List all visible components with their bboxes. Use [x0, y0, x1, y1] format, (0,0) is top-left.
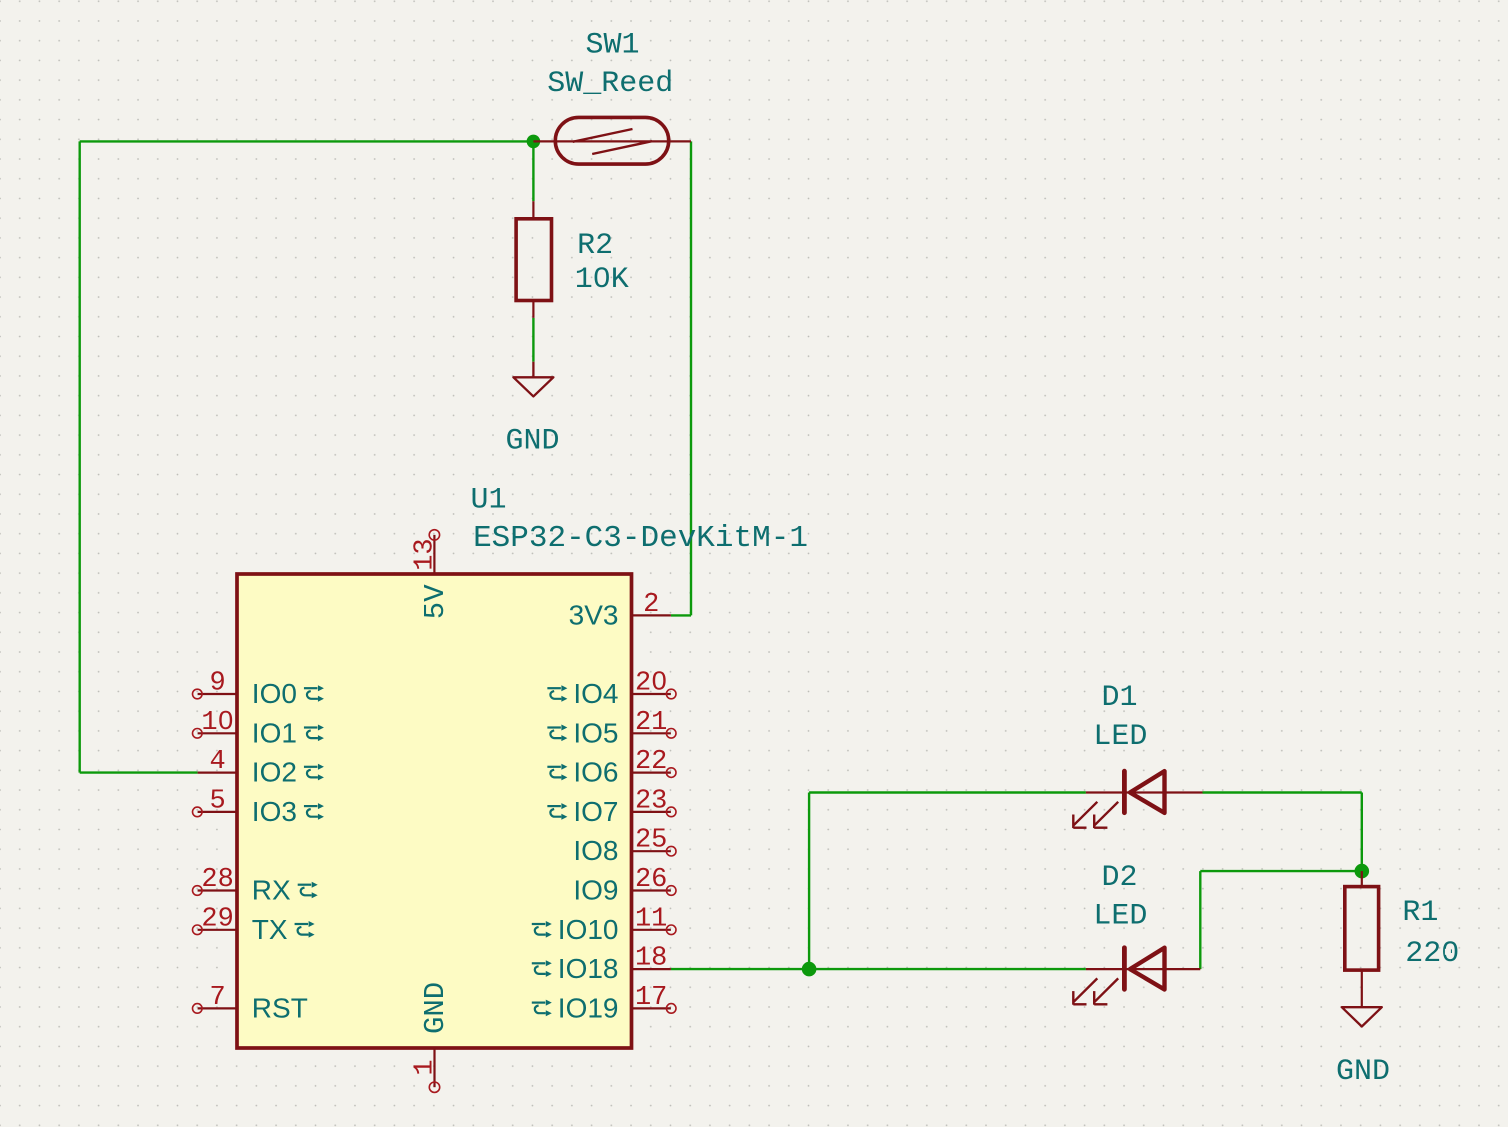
svg-text:IO5: IO5: [573, 717, 618, 748]
svg-text:IO4: IO4: [573, 678, 618, 709]
resistor R1 body: [1345, 887, 1379, 971]
pin 18 IO18 (right): [532, 944, 671, 985]
wire horizontal D2 to R1 junction: [1200, 870, 1362, 872]
svg-text:5: 5: [209, 786, 225, 816]
svg-text:220: 220: [1405, 937, 1459, 971]
(zero glyph patch over label 220): [1445, 949, 1451, 955]
svg-text:7: 7: [209, 983, 225, 1013]
pin 29 TX (left): [193, 904, 315, 945]
pin 5 IO3 (left): [193, 786, 324, 827]
pin 1 GND (bottom): [411, 982, 453, 1093]
SW1 pin 1 left: [533, 140, 612, 142]
SW1 pin 2 right: [612, 140, 691, 142]
svg-text:17: 17: [635, 983, 667, 1013]
svg-text:R1: R1: [1402, 896, 1438, 930]
pin 26 IO9 (right): [573, 865, 676, 906]
pin 23 IO7 (right): [547, 786, 676, 827]
pin 10 IO1 (left): [193, 708, 324, 749]
svg-text:GND: GND: [419, 982, 452, 1034]
svg-text:IO6: IO6: [573, 757, 618, 788]
pin 11 IO10 (right): [532, 904, 676, 945]
svg-text:9: 9: [209, 669, 225, 699]
pin 13 5V (top): [411, 530, 453, 620]
diode D2 LED: [1073, 948, 1200, 1005]
wire SW1 pin2 down to 3V3 vertical: [690, 141, 692, 615]
svg-text:IO3: IO3: [252, 796, 297, 827]
svg-text:11: 11: [635, 904, 667, 934]
svg-text:GND: GND: [1336, 1055, 1390, 1089]
diode D1 LED: [1073, 771, 1202, 828]
wire vertical down to R1 junction: [1361, 793, 1363, 872]
pin 4 IO2 (left): [198, 747, 324, 788]
svg-text:RST: RST: [252, 992, 308, 1023]
svg-text:IO10: IO10: [558, 914, 619, 945]
wire net SW1.1 top horizontal: [80, 140, 534, 142]
wire SW1 pin1 to R2 vertical: [532, 141, 534, 201]
pin 20 IO4 (right): [547, 669, 676, 710]
junction node R1 top: [1355, 864, 1370, 879]
svg-text:GND: GND: [505, 425, 559, 459]
svg-text:IO19: IO19: [558, 992, 619, 1023]
junction node SW1-R2: [527, 135, 541, 149]
SW1 contact blade 1: [573, 129, 633, 142]
svg-text:RX: RX: [252, 875, 291, 906]
svg-text:26: 26: [635, 865, 667, 895]
resistor R2 body: [516, 219, 551, 301]
svg-text:ESP32-C3-DevKitM-1: ESP32-C3-DevKitM-1: [473, 521, 808, 556]
svg-text:13: 13: [411, 538, 441, 570]
svg-text:LED: LED: [1093, 900, 1147, 934]
svg-text:IO9: IO9: [573, 875, 618, 906]
IC U1 body: [237, 574, 632, 1048]
(zero glyph patch over pin number 10): [222, 717, 228, 723]
wire 3V3 horizontal stub: [671, 614, 691, 616]
pin 25 IO8 (right): [573, 826, 676, 867]
R2 pin bottom: [532, 301, 534, 318]
pin 28 RX (left): [193, 865, 318, 906]
svg-text:SW_Reed: SW_Reed: [547, 67, 673, 101]
svg-text:25: 25: [635, 826, 667, 856]
svg-text:29: 29: [201, 904, 233, 934]
pin 22 IO6 (right): [547, 747, 676, 788]
R1 pin top: [1361, 871, 1363, 887]
R2 pin top: [532, 201, 534, 219]
wire IO18 horizontal to D2: [671, 968, 1086, 970]
svg-text:LED: LED: [1093, 720, 1147, 754]
(zero glyph patch over label 10K): [598, 275, 604, 281]
svg-text:IO7: IO7: [573, 796, 618, 827]
svg-text:23: 23: [635, 786, 667, 816]
svg-text:IO0: IO0: [252, 678, 297, 709]
svg-text:5V: 5V: [419, 584, 452, 619]
pin 9 IO0 (left): [193, 669, 324, 710]
svg-text:U1: U1: [470, 484, 506, 518]
svg-text:3V3: 3V3: [569, 599, 619, 630]
svg-text:IO8: IO8: [573, 835, 618, 866]
R1 pin bottom: [1361, 970, 1363, 1007]
wire D1 cathode to right corner: [1203, 791, 1362, 793]
wire net left vertical to IO2: [78, 141, 80, 772]
svg-text:22: 22: [635, 747, 667, 777]
svg-text:28: 28: [201, 865, 233, 895]
svg-text:20: 20: [635, 669, 667, 699]
svg-text:1: 1: [411, 1059, 441, 1075]
svg-text:D1: D1: [1101, 681, 1137, 715]
junction node IO18 split: [802, 962, 817, 977]
svg-text:IO18: IO18: [558, 953, 619, 984]
wire vertical D2 cathode up: [1199, 871, 1201, 969]
svg-text:SW1: SW1: [585, 28, 639, 62]
SW1 contact blade 2: [592, 141, 652, 154]
svg-text:18: 18: [635, 944, 667, 974]
svg-text:IO1: IO1: [252, 717, 297, 748]
(zero glyph patch over pin number 20): [656, 677, 662, 683]
pin 7 RST (left): [193, 983, 308, 1024]
svg-text:R2: R2: [577, 229, 613, 263]
pin 2 3V3 (right): [569, 590, 671, 631]
wire vertical junction to D1 row: [808, 793, 810, 970]
svg-text:TX: TX: [252, 914, 288, 945]
ground symbol GND (R2): [513, 362, 553, 397]
svg-text:10: 10: [201, 708, 233, 738]
wire R2 bottom to GND: [532, 318, 534, 362]
wire horizontal to D1 anode: [809, 791, 1086, 793]
svg-text:4: 4: [209, 747, 225, 777]
switch SW1 reed capsule: [555, 117, 668, 164]
wire net horizontal into pin 4 IO2: [80, 771, 198, 773]
svg-text:21: 21: [635, 708, 667, 738]
svg-text:2: 2: [643, 590, 659, 620]
pin 21 IO5 (right): [547, 708, 676, 749]
svg-text:D2: D2: [1101, 861, 1137, 895]
pin 17 IO19 (right): [532, 983, 676, 1024]
svg-text:IO2: IO2: [252, 757, 297, 788]
ground symbol GND (R1): [1342, 1007, 1382, 1026]
